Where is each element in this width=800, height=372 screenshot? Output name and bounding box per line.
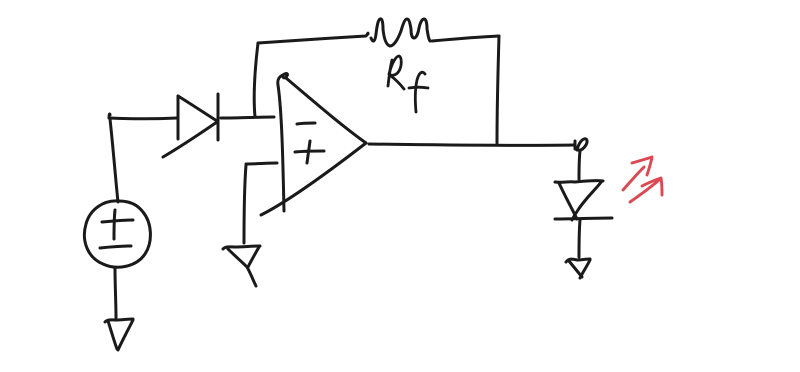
wire input horizontal to diode [109,117,177,121]
feedback wire top-right segment [432,36,499,41]
ground (LED) [566,259,590,278]
resistor Rf [371,19,430,46]
light emission arrows [623,157,662,202]
op-amp U1 [261,74,366,215]
wire diode to inverting input node [221,117,274,118]
ground (source V1) [105,319,133,350]
U1 plus sign [295,141,324,163]
feedback wire top-left segment [258,33,368,43]
wire terminal to LED [579,151,580,179]
feedback wire right vertical [497,36,499,143]
diode D1 [163,94,218,157]
wire non-inverting input [244,163,277,243]
feedback wire left vertical [254,43,258,117]
wire V1 top to input corner [109,114,118,202]
U1 minus sign [297,123,315,124]
ground (non-inverting input) [223,246,260,286]
label Rf [388,56,428,112]
output terminal loop [575,139,587,150]
voltage source V1 [84,201,150,267]
wire LED to ground [579,220,580,257]
output wire [369,144,574,145]
LED D2 [555,181,612,220]
wire V1 bottom [115,268,116,318]
